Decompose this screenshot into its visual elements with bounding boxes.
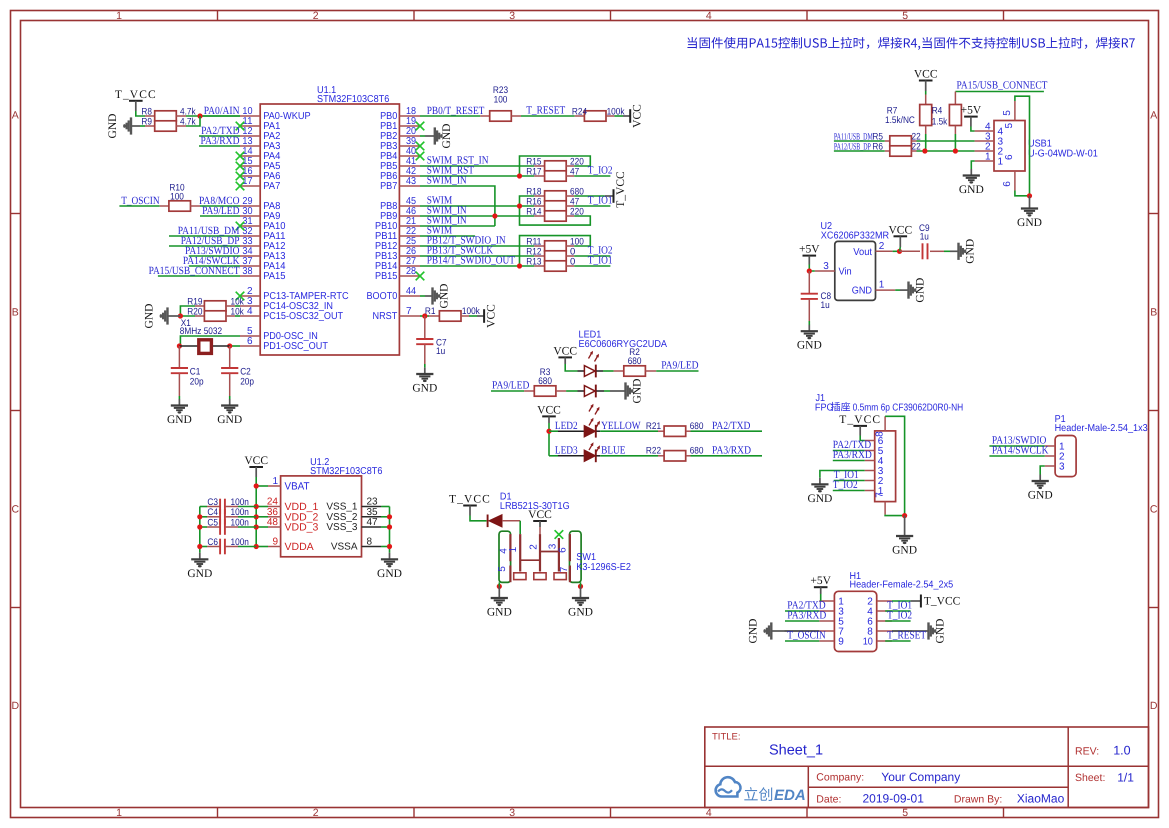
wire VDD_2 stub <box>256 516 268 518</box>
net label LED3 <box>555 445 578 457</box>
wire Vout node <box>893 250 900 252</box>
net label SWIM_RST <box>427 165 475 177</box>
ground GND (BOOT0) <box>420 284 451 309</box>
wire LED1a to R2 <box>603 370 614 372</box>
svg-text:SWIM_IN: SWIM_IN <box>427 175 467 187</box>
no-connect marks right PB pins <box>416 122 425 281</box>
svg-text:PB7: PB7 <box>380 181 398 192</box>
svg-text:T_IO2: T_IO2 <box>588 165 613 177</box>
svg-text:PA14/SWCLK: PA14/SWCLK <box>992 445 1049 457</box>
wire net PA8/MCO <box>200 205 240 207</box>
wire H1 pin8 to GND <box>892 630 912 632</box>
net label PA9/LED (R3) <box>492 380 529 392</box>
resistor R6 <box>872 141 920 156</box>
power flag +5V (H1) <box>810 575 831 594</box>
net label SWIM_RST_IN <box>427 155 489 167</box>
junction dot VSS_3 <box>387 524 392 529</box>
wire R11 loop <box>520 236 591 266</box>
net label PA14/SWCLK (P1) <box>992 445 1049 457</box>
svg-text:REV:: REV: <box>1075 745 1099 757</box>
svg-text:E6C0606RYGC2UDA: E6C0606RYGC2UDA <box>579 339 668 350</box>
net label T_IO1 (R16) <box>588 195 613 207</box>
ground GND (SW1 left) <box>487 586 512 618</box>
svg-text:1u: 1u <box>821 300 830 311</box>
switch SW1 refdes <box>576 552 631 573</box>
svg-text:T_VCC: T_VCC <box>839 414 881 426</box>
svg-text:K3-1296S-E2: K3-1296S-E2 <box>576 562 631 573</box>
wire net PA9/LED (R2) <box>656 370 698 372</box>
switch SW1 pin number 5 <box>497 566 508 572</box>
power flag VCC (U1.2) <box>244 455 268 477</box>
svg-text:Header-Female-2.54_2x5: Header-Female-2.54_2x5 <box>850 579 954 590</box>
net label PA2/TXD (H1) <box>787 600 825 612</box>
wire USB pin6 to GND <box>1015 191 1030 196</box>
no-connect marks left PA pins <box>236 122 245 231</box>
net label T_IO2 (R12) <box>588 245 613 257</box>
svg-text:PC15-OSC32_OUT: PC15-OSC32_OUT <box>263 311 343 322</box>
svg-text:R14: R14 <box>526 206 541 217</box>
svg-text:6: 6 <box>1004 154 1015 160</box>
svg-text:LED3: LED3 <box>555 445 578 457</box>
svg-text:2: 2 <box>313 807 319 819</box>
wire J1 pin3 to GND <box>820 471 865 478</box>
svg-text:1.5k/NC: 1.5k/NC <box>885 115 915 126</box>
ground GND (U1.2 right) <box>377 553 402 580</box>
svg-text:R13: R13 <box>526 256 541 267</box>
net label PA2/TXD (J1) <box>833 439 871 451</box>
svg-text:2: 2 <box>879 241 885 252</box>
wire R19 to PC14 <box>235 305 240 307</box>
svg-text:680: 680 <box>628 356 642 367</box>
svg-text:Company:: Company: <box>816 772 864 784</box>
resistor R2 <box>614 347 657 376</box>
wire R8 to PA0 <box>186 115 240 117</box>
net label PA3/RXD <box>201 135 240 147</box>
power flag T_VCC (R8) <box>115 89 157 111</box>
junction dot NRST <box>422 313 427 318</box>
ground GND (C9) <box>950 239 977 264</box>
svg-text:LED2: LED2 <box>555 420 578 432</box>
svg-text:U-G-04WD-W-01: U-G-04WD-W-01 <box>1028 148 1098 159</box>
wire +5V to H1 pin1 <box>820 594 822 601</box>
svg-text:7: 7 <box>559 566 570 572</box>
power flag VCC (U2) <box>888 224 912 251</box>
ground GND (USB pin1) <box>959 169 984 196</box>
junction dot LED2 <box>546 429 551 434</box>
led LED1 arrows A <box>589 351 600 362</box>
mcu U1.1 right pins <box>367 106 421 322</box>
svg-text:8: 8 <box>875 431 886 437</box>
svg-text:Your Company: Your Company <box>881 770 960 784</box>
svg-text:T_VCC: T_VCC <box>115 89 157 101</box>
svg-text:VCC: VCC <box>553 345 577 357</box>
wire R7 to USB_DP <box>925 134 927 151</box>
net label SWIM_IN (PB10) <box>427 215 467 227</box>
net label PA3/RXD (J1) <box>833 449 872 461</box>
svg-text:T_VCC: T_VCC <box>449 494 491 506</box>
ground GND (USB shield) <box>1017 196 1042 229</box>
wire VCC rail U1.2 <box>255 477 257 547</box>
wire R19 R20 left <box>180 306 195 316</box>
junction dot VBAT <box>254 483 259 488</box>
svg-text:680: 680 <box>538 376 552 387</box>
net label BLUE <box>601 445 626 457</box>
svg-text:GND: GND <box>852 286 872 297</box>
svg-text:A: A <box>12 110 19 122</box>
connector USB1 pin6 <box>1002 154 1015 191</box>
svg-text:R1: R1 <box>425 306 436 317</box>
lceda logo <box>716 777 806 804</box>
resistor R12 <box>526 246 575 261</box>
wire VCC to LED1a <box>565 364 577 371</box>
svg-text:GND: GND <box>959 184 984 196</box>
resistor R4 <box>932 92 962 135</box>
wire PB8 SWIM <box>420 205 534 207</box>
svg-text:PA9/LED: PA9/LED <box>661 360 698 372</box>
power flag VCC (LED2) <box>537 404 561 423</box>
ground GND (C2) <box>217 399 242 426</box>
connector P1 refdes <box>1055 414 1148 434</box>
junction dot PA0 <box>197 113 202 118</box>
title value 2019-09-01 <box>863 792 925 806</box>
svg-text:+5V: +5V <box>810 575 831 587</box>
svg-text:20p: 20p <box>190 376 204 387</box>
svg-text:VBAT: VBAT <box>285 481 311 493</box>
wire GND rail left U1.2 <box>199 507 201 553</box>
svg-text:VCC: VCC <box>914 69 938 81</box>
net label T_IO2 (R17) <box>588 165 613 177</box>
ground GND (LED1) <box>604 379 644 404</box>
switch SW1 link 1-2 <box>520 559 540 561</box>
resistor R16 <box>526 196 579 211</box>
ground GND (U2) <box>900 278 927 303</box>
svg-text:GND: GND <box>1017 217 1042 229</box>
svg-text:6: 6 <box>1002 181 1013 187</box>
wire net PA3/RXD <box>199 145 240 147</box>
power flag T_VCC (R18) <box>605 171 627 208</box>
svg-text:VCC: VCC <box>888 224 912 236</box>
svg-text:5: 5 <box>902 10 908 22</box>
wire VDDA stub <box>256 546 268 548</box>
svg-text:1: 1 <box>998 157 1004 168</box>
wire SW1 left to GND <box>498 582 500 586</box>
connector J1 pins <box>865 436 884 497</box>
switch SW1 pin7 bar <box>569 566 571 583</box>
led LED3 diode <box>549 449 600 462</box>
led LED1 diode B <box>578 385 605 398</box>
value 680 (R21) <box>690 421 704 432</box>
title label Company <box>816 772 864 784</box>
junction dot SWIM_IN <box>492 213 497 218</box>
wire GND rail right U1.2 <box>381 507 390 553</box>
svg-text:PA3/RXD: PA3/RXD <box>712 445 751 457</box>
connector P1 body <box>1055 436 1076 477</box>
junction dot C4 left <box>197 514 202 519</box>
switch SW1 pin number 1 <box>508 546 519 552</box>
svg-text:C: C <box>1150 504 1158 516</box>
svg-text:1: 1 <box>879 280 885 291</box>
svg-text:Date:: Date: <box>816 794 841 806</box>
wire PA15/USB_CONNECT (USB) <box>955 91 1044 93</box>
wire PB7 SWIM_IN <box>420 186 495 226</box>
wire R13 to T_IO1 <box>574 265 610 267</box>
switch SW1 pin5 bar <box>509 566 511 583</box>
svg-text:BLUE: BLUE <box>601 445 626 457</box>
junction dot X1 right <box>227 343 232 348</box>
wire LED2 to R21 <box>600 430 658 432</box>
svg-text:T_RESET: T_RESET <box>526 105 565 117</box>
svg-text:STM32F103C8T6: STM32F103C8T6 <box>317 94 390 105</box>
wire PB6 SWIM_RST <box>420 175 534 177</box>
svg-text:5: 5 <box>1004 123 1015 129</box>
title value Sheet_1 <box>769 742 823 758</box>
wire T_RESET (H1) <box>885 640 910 642</box>
svg-text:+5V: +5V <box>961 105 982 117</box>
svg-text:R22: R22 <box>646 446 661 457</box>
resistor R11 <box>526 236 584 251</box>
wire PA2/TXD (J1) <box>833 450 865 452</box>
wire PA13/SWDIO (P1) <box>989 445 1044 447</box>
title block outline <box>705 727 1149 808</box>
wire PA14/SWCLK (P1) <box>989 455 1044 457</box>
capacitor C3 <box>200 497 256 515</box>
svg-text:2019-09-01: 2019-09-01 <box>863 792 925 806</box>
ground GND (H1 pin8) <box>912 619 947 644</box>
svg-text:38: 38 <box>242 266 252 277</box>
wire R5 to USB pin3 <box>917 140 975 142</box>
junction dot SWIM node <box>517 203 522 208</box>
svg-text:GND: GND <box>797 340 822 352</box>
connector USB1 refdes <box>1028 138 1098 159</box>
svg-text:8MHz 5032: 8MHz 5032 <box>180 326 222 337</box>
svg-text:T_IO1: T_IO1 <box>588 255 613 267</box>
svg-text:100n: 100n <box>231 517 249 528</box>
wire net PA11/USB_DM <box>169 235 240 237</box>
title value 1/1 <box>1117 770 1134 784</box>
svg-text:TITLE:: TITLE: <box>712 732 741 743</box>
svg-text:T_IO2: T_IO2 <box>833 479 858 491</box>
junction dot USB shield <box>1027 193 1032 198</box>
svg-text:44: 44 <box>406 286 416 297</box>
net label YELLOW <box>601 420 641 432</box>
wire VBAT stub <box>256 485 268 487</box>
net label PA3/RXD (R22) <box>712 445 751 457</box>
svg-text:4: 4 <box>706 807 712 819</box>
svg-text:PB15: PB15 <box>375 271 398 282</box>
junction dot VSSA <box>387 544 392 549</box>
net label PA13/SWDIO (P1) <box>992 435 1047 447</box>
wire R17 to T_IO2 <box>574 175 610 177</box>
net label SWIM_IN (PB9) <box>427 205 467 217</box>
resistor R15 <box>526 156 584 171</box>
svg-text:100: 100 <box>170 192 184 203</box>
svg-text:T_IO1: T_IO1 <box>588 195 613 207</box>
svg-text:PA3/RXD: PA3/RXD <box>833 449 872 461</box>
connector H1 body <box>834 591 876 651</box>
svg-text:T_OSCIN: T_OSCIN <box>121 195 159 207</box>
svg-text:VCC: VCC <box>528 509 552 521</box>
svg-text:BOOT0: BOOT0 <box>367 291 398 302</box>
wire PB14 <box>420 265 534 267</box>
net label PA11/USB_DM <box>178 225 240 237</box>
wire D1 to SW1 pin1 <box>519 521 521 534</box>
resistor R3 <box>524 367 566 396</box>
net label PA14/SWCLK <box>183 255 240 267</box>
junction dot C5 left <box>197 524 202 529</box>
mcu U1.2 body <box>281 476 362 557</box>
connector USB1 body <box>994 121 1025 172</box>
svg-text:5: 5 <box>1002 110 1013 116</box>
wire PD0 net <box>180 336 240 346</box>
resistor R7 <box>885 95 932 135</box>
wire NRST <box>420 315 429 317</box>
capacitor C6 <box>200 537 256 555</box>
junction dot VDD_1 <box>254 504 259 509</box>
power flag +5V (USB) <box>961 105 982 127</box>
ground GND (C8) <box>797 325 822 352</box>
wire T_VCC to R8 <box>136 111 145 116</box>
svg-text:8: 8 <box>367 537 373 548</box>
junction dot SW1 left <box>497 584 502 589</box>
led LED1 refdes <box>579 330 668 350</box>
svg-text:EDA: EDA <box>774 787 806 804</box>
switch SW1 pin number 2 <box>529 544 540 550</box>
wire R16 to T_IO1 <box>574 205 610 207</box>
svg-text:T_VCC: T_VCC <box>924 596 961 608</box>
wire net PA12/USB_DP <box>169 245 240 247</box>
led LED2 diode <box>549 425 600 438</box>
capacitor C1 <box>171 346 204 399</box>
wire T_IO1 (J1) <box>834 480 865 482</box>
wire PB11 SWIM <box>420 235 475 237</box>
svg-text:GND: GND <box>892 545 917 557</box>
svg-text:1: 1 <box>116 10 122 22</box>
ground GND (H1 pin7) <box>747 619 819 644</box>
svg-text:GND: GND <box>568 607 593 619</box>
connector H1 refdes <box>850 571 954 591</box>
svg-text:100n: 100n <box>231 537 249 548</box>
svg-text:PA15/USB_CONNECT: PA15/USB_CONNECT <box>149 265 240 277</box>
connector J1 pin8 <box>875 416 886 437</box>
wire net PA15/USB_CONNECT <box>158 275 240 277</box>
wire VDD_3 stub <box>256 526 268 528</box>
net label T_OSCIN <box>121 195 159 207</box>
regulator U2 pin2 Vout <box>853 241 892 258</box>
switch SW1 pin1 bar <box>519 534 521 571</box>
svg-text:9: 9 <box>838 637 844 648</box>
svg-text:VCC: VCC <box>244 455 268 467</box>
power flag VCC (R1) <box>477 304 497 328</box>
wire +5V to USB pin4 <box>971 127 975 132</box>
svg-text:PA2/TXD: PA2/TXD <box>712 420 750 432</box>
wire R22 to net <box>691 455 763 457</box>
svg-text:1/1: 1/1 <box>1117 770 1134 784</box>
svg-text:0.5mm 6p CF39062D0R0-NH: 0.5mm 6p CF39062D0R0-NH <box>853 402 964 413</box>
wire J1 shield <box>885 416 905 515</box>
net label PA0/AIN <box>204 105 240 117</box>
svg-text:Vin: Vin <box>839 267 852 278</box>
svg-text:48: 48 <box>267 517 279 528</box>
led LED2 arrows <box>589 418 600 429</box>
svg-text:VCC: VCC <box>632 104 644 128</box>
svg-text:GND: GND <box>144 304 156 329</box>
resistor R8 <box>141 106 195 121</box>
junction dot C6 left <box>197 544 202 549</box>
ground GND (PB2) <box>420 124 453 149</box>
switch SW1 pin3 bar <box>558 538 560 572</box>
wire USB_DM left <box>834 140 885 142</box>
junction dot Vout <box>897 249 902 254</box>
crystal X1 <box>179 340 229 354</box>
junction dot VDDA <box>254 544 259 549</box>
svg-text:3: 3 <box>509 10 515 22</box>
switch SW1 pin2 bar <box>539 534 541 571</box>
connector USB1 pins 1-4 <box>975 122 1004 168</box>
svg-text:VSS_3: VSS_3 <box>326 522 358 533</box>
wire R4 to USB_DP <box>954 134 956 151</box>
svg-text:VDDA: VDDA <box>285 541 314 553</box>
svg-text:R4: R4 <box>932 106 943 117</box>
ground GND (U1.2 left) <box>187 553 212 580</box>
wire PD1 net <box>230 345 240 347</box>
net label PB12/T_SWDIO_IN <box>427 235 506 247</box>
switch SW1 pad1 <box>514 573 526 580</box>
junction dot R20-GND <box>178 313 183 318</box>
wire R18 left drop <box>520 196 591 225</box>
svg-text:PA3/RXD: PA3/RXD <box>201 135 240 147</box>
svg-text:NRST: NRST <box>373 311 398 322</box>
svg-text:XiaoMao: XiaoMao <box>1017 792 1065 806</box>
net label T_RESET (H1) <box>887 629 926 641</box>
svg-text:STM32F103C8T6: STM32F103C8T6 <box>310 466 383 477</box>
svg-text:GND: GND <box>935 619 947 644</box>
led LED1 diode A <box>578 365 604 378</box>
resistor R9 <box>141 116 195 131</box>
wire PA3/RXD (J1) <box>833 460 865 462</box>
svg-text:1.5k: 1.5k <box>932 117 948 128</box>
title label Drawn By <box>954 794 1002 806</box>
svg-text:1u: 1u <box>920 232 929 243</box>
svg-text:GND: GND <box>807 493 832 505</box>
power flag T_VCC (H1) <box>911 595 961 608</box>
wire PB5 SWIM_RST_IN <box>420 165 534 167</box>
crystal X1 label <box>180 318 222 337</box>
resistor R24 <box>572 106 625 121</box>
svg-text:1: 1 <box>508 546 519 552</box>
resistor R10 <box>160 182 200 211</box>
svg-text:680: 680 <box>690 421 704 432</box>
title label Date <box>816 794 841 806</box>
junction dot R7 USB_DP <box>922 148 927 153</box>
resistor R13 <box>526 256 575 271</box>
mcu U1.1 left pins <box>240 106 349 352</box>
svg-text:+5V: +5V <box>799 244 820 256</box>
net label PB0/T_RESET <box>427 105 485 117</box>
wire R15 loop <box>520 156 591 176</box>
svg-text:PA15: PA15 <box>263 271 286 282</box>
junction dot VSS_2 <box>387 514 392 519</box>
svg-text:1: 1 <box>985 152 991 163</box>
regulator U2 pin3 Vin <box>815 261 852 278</box>
svg-text:T_VCC: T_VCC <box>615 171 627 208</box>
resistor R23 <box>480 85 521 121</box>
net label T_IO1 (H1) <box>887 600 912 612</box>
svg-text:2: 2 <box>529 544 540 550</box>
svg-text:PA15/USB_CONNECT: PA15/USB_CONNECT <box>957 79 1048 91</box>
svg-text:5: 5 <box>902 807 908 819</box>
svg-text:GND: GND <box>107 114 119 139</box>
svg-text:5: 5 <box>497 566 508 572</box>
